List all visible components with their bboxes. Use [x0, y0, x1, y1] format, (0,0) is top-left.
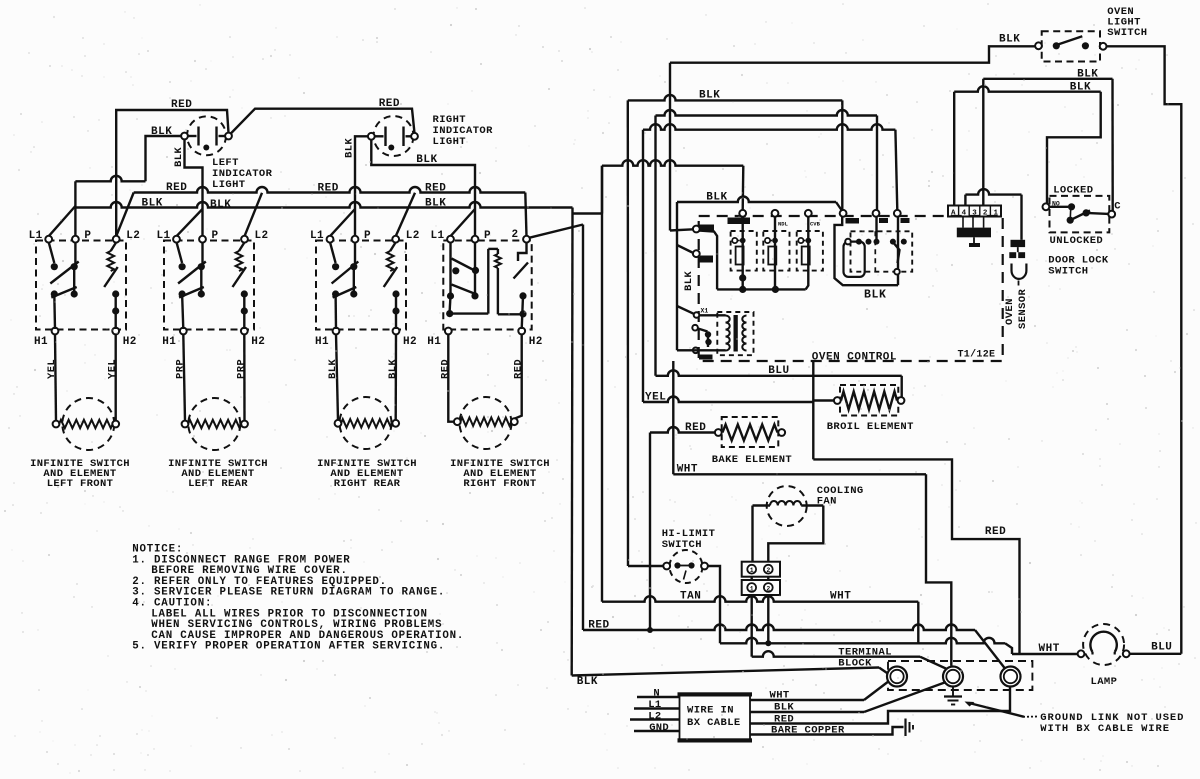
svg-text:BLK: BLK [344, 138, 356, 158]
svg-text:P: P [484, 230, 491, 242]
svg-text:BLK: BLK [387, 359, 399, 379]
svg-text:C: C [1114, 201, 1121, 213]
svg-text:L1: L1 [29, 230, 43, 242]
svg-text:H1: H1 [162, 336, 176, 348]
svg-text:SWITCH: SWITCH [1048, 266, 1088, 278]
svg-text:BLK: BLK [210, 199, 231, 211]
svg-text:H1: H1 [427, 336, 441, 348]
svg-text:YEL: YEL [46, 359, 58, 379]
svg-text:L2: L2 [406, 230, 420, 242]
svg-text:LEFT FRONT: LEFT FRONT [47, 478, 114, 490]
svg-text:UNLOCKED: UNLOCKED [1050, 235, 1104, 247]
svg-text:L2: L2 [255, 230, 269, 242]
svg-text:RED: RED [318, 183, 339, 195]
svg-text:BROIL ELEMENT: BROIL ELEMENT [827, 421, 914, 433]
svg-text:PRP: PRP [174, 359, 186, 379]
svg-text:H2: H2 [403, 336, 417, 348]
svg-text:H2: H2 [123, 336, 137, 348]
svg-text:4: 4 [962, 210, 967, 218]
svg-text:H2: H2 [529, 336, 543, 348]
svg-text:BLK: BLK [699, 90, 720, 102]
svg-text:BX CABLE: BX CABLE [687, 717, 741, 729]
svg-text:BLU: BLU [768, 365, 789, 377]
svg-text:BLK: BLK [425, 197, 446, 209]
svg-text:RED: RED [171, 99, 192, 111]
svg-text:BLK: BLK [173, 147, 185, 167]
svg-text:BLU: BLU [1151, 642, 1172, 654]
svg-text:X1: X1 [701, 308, 709, 315]
svg-text:1: 1 [750, 567, 754, 574]
svg-text:SWITCH: SWITCH [662, 539, 702, 551]
svg-text:GND: GND [649, 722, 669, 734]
svg-text:SENSOR: SENSOR [1017, 288, 1029, 329]
svg-text:YEL: YEL [107, 359, 119, 379]
svg-text:P: P [364, 230, 371, 242]
svg-text:WIRE IN: WIRE IN [687, 705, 734, 717]
svg-text:SWITCH: SWITCH [1107, 27, 1147, 39]
svg-text:OVEN CONTROL: OVEN CONTROL [812, 352, 897, 364]
svg-text:RIGHT FRONT: RIGHT FRONT [463, 478, 536, 490]
svg-text:BLK: BLK [683, 271, 695, 291]
svg-text:BLK: BLK [151, 126, 172, 138]
svg-text:BLK: BLK [999, 34, 1020, 46]
svg-text:L1: L1 [648, 699, 661, 711]
svg-text:H1: H1 [315, 336, 329, 348]
svg-text:LEFT REAR: LEFT REAR [188, 478, 248, 490]
svg-text:BLK: BLK [864, 289, 887, 302]
svg-text:OVEN: OVEN [1004, 298, 1016, 325]
svg-text:LIGHT: LIGHT [212, 179, 246, 191]
svg-text:H1: H1 [34, 336, 48, 348]
svg-text:L1: L1 [310, 230, 324, 242]
svg-text:RED: RED [513, 359, 525, 379]
svg-text:RED: RED [985, 526, 1006, 538]
svg-text:BLK: BLK [706, 192, 727, 204]
svg-text:RED: RED [166, 182, 187, 194]
svg-text:BAKE ELEMENT: BAKE ELEMENT [712, 454, 792, 466]
svg-text:2: 2 [766, 586, 770, 593]
svg-text:BLOCK: BLOCK [838, 658, 872, 670]
svg-text:2: 2 [511, 229, 518, 241]
svg-text:RED: RED [379, 98, 400, 110]
svg-text:H2: H2 [251, 336, 265, 348]
svg-text:N: N [653, 688, 660, 700]
svg-text:T1/12E: T1/12E [958, 349, 996, 361]
svg-text:P: P [212, 230, 219, 242]
svg-text:CVB: CVB [810, 221, 821, 228]
svg-text:LAMP: LAMP [1091, 676, 1118, 688]
svg-text:RED: RED [425, 183, 446, 195]
svg-text:5. VERIFY PROPER OPERATION AFT: 5. VERIFY PROPER OPERATION AFTER SERVICI… [132, 641, 445, 653]
svg-text:NDL: NDL [778, 221, 789, 228]
svg-text:RIGHT REAR: RIGHT REAR [334, 478, 401, 490]
svg-text:RED: RED [439, 359, 451, 379]
svg-text:FAN: FAN [817, 496, 837, 508]
svg-text:2: 2 [766, 567, 770, 574]
svg-text:L2: L2 [648, 711, 661, 723]
svg-text:BLK: BLK [142, 197, 163, 209]
svg-text:BLK: BLK [327, 359, 339, 379]
svg-text:LOCKED: LOCKED [1053, 185, 1093, 197]
svg-text:BLK: BLK [577, 676, 598, 688]
svg-text:PRP: PRP [235, 359, 247, 379]
svg-text:1: 1 [750, 586, 754, 593]
svg-text:L2: L2 [126, 230, 140, 242]
svg-text:L1: L1 [156, 230, 170, 242]
svg-text:L1: L1 [430, 230, 444, 242]
svg-text:P: P [84, 230, 91, 242]
svg-text:BLK: BLK [416, 154, 437, 166]
svg-text:WITH BX CABLE WIRE: WITH BX CABLE WIRE [1040, 723, 1170, 735]
